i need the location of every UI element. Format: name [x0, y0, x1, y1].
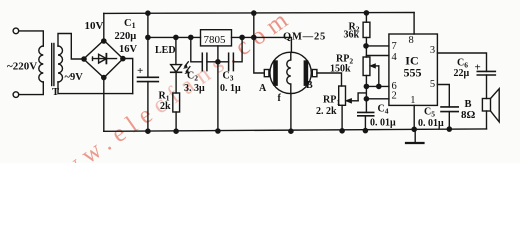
node RP1 ground junction — [340, 129, 344, 133]
watermark www.elecfans.com main diagonal — [35, 3, 298, 198]
wire 7805 output line — [232, 37, 292, 52]
node RP2 wiper junction — [377, 84, 381, 88]
node bridge left vertex — [82, 57, 86, 61]
wire pin 4 — [366, 55, 389, 57]
node C4 ground junction — [363, 129, 367, 133]
node 7805 gnd with C2 C3 — [216, 60, 220, 64]
wire pin 8 drop from rail — [413, 13, 415, 34]
svg-text:0. 01μ: 0. 01μ — [418, 118, 444, 129]
bridge internal diode — [93, 54, 117, 64]
transformer T primary winding — [39, 46, 44, 82]
node C2 tap — [189, 35, 193, 39]
sensor heater coil — [287, 52, 291, 93]
wire LED drop — [175, 37, 177, 64]
svg-text:36k: 36k — [344, 30, 360, 41]
resistor R1 box — [173, 93, 180, 112]
svg-text:A: A — [259, 83, 267, 94]
wire secondary top to bridge AC left — [58, 34, 84, 60]
potentiometer RP2 box — [363, 57, 370, 76]
svg-text:5: 5 — [430, 79, 435, 90]
capacitor C6 plates — [477, 71, 495, 75]
node 7805 gnd rail junction — [216, 129, 220, 133]
wire C2 drop and lead — [191, 37, 203, 61]
LED symbol — [171, 62, 190, 74]
RP1 wiper arrow — [346, 93, 367, 103]
svg-text:8Ω: 8Ω — [461, 109, 476, 121]
node bridge right vertex — [121, 57, 125, 61]
svg-text:+: + — [137, 65, 143, 77]
svg-text:~9V: ~9V — [65, 72, 84, 83]
node RP2 bottom junction — [364, 84, 368, 88]
wire +5V drop to sensor A — [254, 13, 264, 73]
node R2 top rail junction — [364, 11, 368, 15]
transformer core — [51, 44, 53, 86]
IC 555 box — [389, 34, 438, 105]
svg-text:16V: 16V — [119, 44, 138, 55]
svg-text:150k: 150k — [330, 64, 351, 75]
svg-text:QM—25: QM—25 — [283, 32, 326, 43]
speaker cone — [491, 89, 500, 122]
speaker B magnet box — [482, 99, 490, 112]
wire C1 drop from top rail — [147, 13, 149, 77]
wire R1 to ground — [175, 112, 177, 131]
svg-text:10V: 10V — [85, 20, 104, 32]
svg-text:~220V: ~220V — [7, 61, 37, 73]
svg-text:1: 1 — [410, 95, 415, 106]
capacitor C5 plates — [441, 107, 458, 112]
resistor R2 box — [363, 22, 370, 37]
capacitor C1 plates — [138, 77, 159, 81]
node R1 ground junction — [174, 129, 178, 133]
node output line crossing — [252, 35, 256, 39]
wire pin 7 — [366, 45, 389, 47]
node bridge + top vertex — [102, 39, 106, 43]
terminal top-left — [13, 28, 19, 34]
wire pin 3 to C6 — [437, 53, 486, 71]
svg-text:2k: 2k — [160, 101, 171, 112]
wire RP2 bottom down — [365, 76, 367, 113]
node pin7 tap — [364, 44, 368, 48]
wire pin 5 and C5 drop — [437, 85, 449, 107]
bridge rectifier diamond — [84, 40, 123, 78]
wire C1 bottom to ground — [147, 82, 149, 132]
wire bridge top to +10V rail — [103, 13, 105, 40]
svg-text:0. 01μ: 0. 01μ — [370, 118, 396, 129]
svg-text:LED: LED — [155, 45, 176, 56]
sensor electrode B plate — [304, 60, 309, 86]
node bridge bottom vertex — [102, 75, 106, 79]
svg-text:B: B — [306, 80, 313, 91]
wire +10V top rail — [104, 12, 414, 15]
transformer T secondary winding — [58, 46, 63, 82]
wire terminal to primary top — [19, 31, 44, 46]
svg-text:4: 4 — [392, 52, 398, 63]
node input rail at C1 drop — [146, 35, 150, 39]
wire C3 lead left — [218, 61, 229, 63]
svg-text:2. 2k: 2. 2k — [316, 106, 337, 117]
sensor electrode A plate — [273, 60, 278, 86]
node sensor ground junction — [289, 129, 293, 133]
node C5 ground junction — [447, 127, 451, 131]
wire sensor f pin to ground — [290, 94, 292, 132]
wire R2 bottom to RP2 — [365, 38, 367, 58]
wire sensor B to RP1 top — [317, 73, 342, 86]
wire speaker to ground — [486, 111, 488, 129]
capacitor C2 plates — [202, 53, 207, 70]
node pin2 tap — [364, 97, 368, 101]
potentiometer RP1 box — [339, 86, 346, 105]
sensor electrode A stem — [264, 70, 269, 77]
ground symbol — [406, 130, 424, 144]
capacitor C3 plates — [229, 53, 234, 70]
capacitor C4 plates — [358, 112, 374, 115]
svg-text:T: T — [52, 87, 59, 98]
svg-text:3: 3 — [430, 45, 435, 56]
regulator 7805 box — [201, 30, 232, 46]
wire bridge AC right down — [123, 59, 133, 94]
wire rail to R2 — [365, 13, 367, 22]
wire ground bottom rail — [104, 129, 487, 131]
wire pin 6 — [366, 85, 389, 87]
svg-text:3. 3μ: 3. 3μ — [184, 83, 205, 94]
terminal bottom-left — [13, 92, 19, 98]
svg-text:2: 2 — [392, 90, 397, 101]
node +5V rail drop junction — [252, 11, 256, 15]
svg-text:8: 8 — [409, 35, 414, 46]
wire LED to R1 — [175, 72, 177, 93]
wire secondary bottom — [58, 82, 133, 94]
svg-text:220μ: 220μ — [115, 31, 137, 42]
RP2 wiper arrow — [370, 64, 379, 87]
svg-text:0. 1μ: 0. 1μ — [220, 83, 241, 94]
wire pin 2 — [366, 98, 389, 100]
wire C4 to ground — [364, 116, 366, 131]
wire pin 1 to ground — [413, 105, 415, 129]
gas sensor QM-25 circle — [270, 52, 311, 93]
node C3 riser junction — [240, 35, 244, 39]
sensor electrode B stem — [312, 70, 317, 77]
wire terminal to primary bottom — [19, 82, 44, 95]
svg-text:22μ: 22μ — [454, 68, 470, 79]
node pin1 ground junction — [412, 127, 416, 131]
svg-text:+: + — [475, 62, 481, 74]
svg-text:7805: 7805 — [204, 34, 227, 46]
wire C6 to speaker — [486, 75, 488, 99]
wire 7805 input rail — [148, 36, 201, 38]
wire C3 lead right and riser — [233, 37, 242, 61]
node C1 top rail junction — [146, 11, 150, 15]
node LED tap — [174, 35, 178, 39]
wire bridge bottom to ground rail — [103, 78, 105, 132]
wire C2 to gnd drop — [207, 61, 218, 63]
node C1 ground junction — [146, 129, 150, 133]
svg-text:7: 7 — [392, 41, 397, 52]
wire RP1 bottom to ground — [341, 105, 343, 131]
svg-text:555: 555 — [404, 65, 422, 79]
wire 7805 ground pin drop — [217, 46, 219, 131]
wire C5 to ground — [448, 112, 450, 130]
